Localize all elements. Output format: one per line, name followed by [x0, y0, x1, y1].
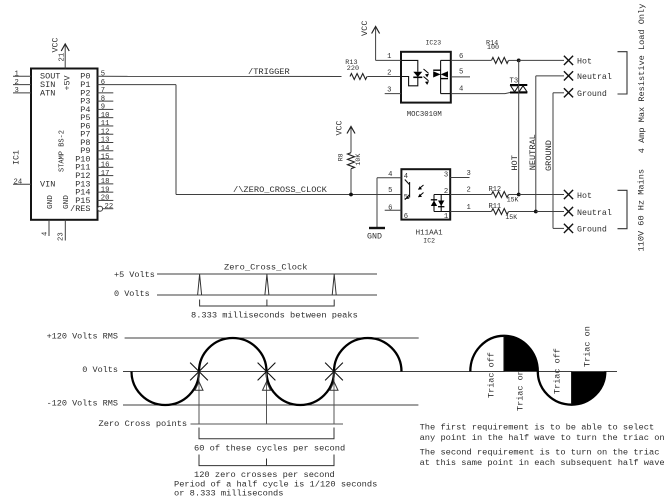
svg-text:23: 23 [58, 232, 66, 241]
svg-text:6: 6 [404, 213, 408, 221]
svg-text:3: 3 [15, 87, 19, 95]
svg-text:24: 24 [14, 179, 23, 187]
svg-text:5: 5 [101, 71, 105, 79]
svg-text:4: 4 [388, 171, 392, 179]
svg-text:Triac off: Triac off [553, 348, 563, 394]
svg-text:/\ZERO_CROSS_CLOCK: /\ZERO_CROSS_CLOCK [233, 185, 328, 195]
svg-text:T3: T3 [510, 77, 519, 85]
svg-text:HOT: HOT [510, 155, 520, 170]
svg-text:/RES: /RES [70, 204, 90, 214]
svg-text:14: 14 [101, 145, 110, 153]
svg-text:GND: GND [63, 195, 71, 209]
svg-text:1: 1 [15, 71, 19, 79]
svg-text:8: 8 [101, 95, 105, 103]
svg-text:The first requirement is to be: The first requirement is to be able to s… [420, 423, 655, 433]
svg-text:R11: R11 [489, 203, 502, 211]
svg-text:19: 19 [101, 186, 110, 194]
svg-text:5: 5 [459, 69, 463, 77]
svg-text:10K: 10K [355, 154, 362, 166]
svg-text:16: 16 [101, 162, 110, 170]
svg-text:22: 22 [105, 203, 114, 211]
svg-text:VCC: VCC [50, 37, 60, 52]
svg-text:+120 Volts RMS: +120 Volts RMS [47, 332, 118, 342]
svg-text:6: 6 [101, 79, 105, 87]
svg-text:NEUTRAL: NEUTRAL [528, 134, 538, 170]
svg-text:VCC: VCC [335, 120, 345, 135]
svg-text:Hot: Hot [577, 58, 592, 67]
svg-text:GND: GND [367, 233, 382, 242]
svg-text:Neutral: Neutral [577, 208, 612, 218]
svg-text:-120 Volts RMS: -120 Volts RMS [47, 399, 118, 409]
svg-text:Zero Cross points: Zero Cross points [99, 419, 188, 429]
svg-text:4: 4 [42, 232, 50, 236]
svg-text:Triac on: Triac on [515, 370, 525, 411]
svg-text:Ground: Ground [577, 225, 607, 235]
svg-text:18: 18 [101, 178, 110, 186]
svg-text:H11AA1: H11AA1 [416, 230, 444, 238]
svg-text:any point in the half wave to: any point in the half wave to turn the t… [420, 433, 664, 443]
svg-text:Neutral: Neutral [577, 72, 612, 82]
svg-text:9: 9 [101, 104, 105, 112]
svg-text:5: 5 [388, 187, 392, 195]
svg-text:STAMP BS-2: STAMP BS-2 [58, 130, 66, 172]
svg-text:21: 21 [58, 53, 66, 62]
svg-text:The second requirement is to t: The second requirement is to turn on the… [420, 448, 660, 458]
svg-text:4 Amp Max Resistive Load Only: 4 Amp Max Resistive Load Only [637, 4, 647, 154]
svg-text:12: 12 [101, 128, 110, 136]
svg-text:GND: GND [47, 195, 55, 209]
svg-text:120 zero crosses per second: 120 zero crosses per second [194, 470, 335, 480]
svg-text:at this same point in each sub: at this same point in each subsequent ha… [420, 458, 664, 468]
svg-text:100: 100 [487, 44, 499, 52]
svg-text:0 Volts: 0 Volts [114, 289, 150, 299]
svg-text:1: 1 [387, 53, 391, 61]
svg-text:Triac on: Triac on [583, 326, 593, 367]
svg-text:ATN: ATN [40, 88, 55, 98]
svg-text:6: 6 [388, 205, 392, 213]
svg-text:VCC: VCC [360, 21, 370, 36]
svg-text:15K: 15K [505, 214, 517, 221]
svg-text:VIN: VIN [40, 180, 55, 190]
svg-text:20: 20 [101, 195, 110, 203]
svg-text:60 of these cycles per second: 60 of these cycles per second [194, 443, 345, 453]
svg-text:IC23: IC23 [426, 40, 442, 47]
svg-text:R8: R8 [337, 153, 344, 161]
svg-text:R12: R12 [489, 186, 502, 194]
svg-text:Ground: Ground [577, 89, 607, 99]
svg-text:10: 10 [101, 112, 110, 120]
svg-text:2: 2 [467, 187, 471, 195]
svg-text:/TRIGGER: /TRIGGER [248, 67, 290, 77]
svg-text:Hot: Hot [577, 192, 592, 201]
svg-text:IC1: IC1 [12, 150, 21, 165]
svg-text:1: 1 [467, 204, 471, 212]
svg-text:4: 4 [459, 85, 463, 93]
svg-text:1: 1 [444, 213, 448, 221]
svg-text:220: 220 [347, 65, 359, 73]
svg-text:3: 3 [444, 172, 448, 180]
svg-text:2: 2 [15, 79, 19, 87]
svg-text:8.333 milliseconds between pea: 8.333 milliseconds between peaks [191, 311, 358, 321]
svg-text:0 Volts: 0 Volts [82, 365, 118, 375]
svg-text:+5V: +5V [62, 75, 72, 90]
svg-text:110V 60 Hz Mains: 110V 60 Hz Mains [637, 169, 647, 252]
svg-text:6: 6 [459, 53, 463, 61]
svg-text:11: 11 [101, 120, 110, 128]
svg-text:13: 13 [101, 137, 110, 145]
svg-text:+5 Volts: +5 Volts [114, 270, 155, 280]
svg-text:7: 7 [101, 87, 105, 95]
svg-text:Triac off: Triac off [487, 352, 497, 398]
svg-text:Zero_Cross_Clock: Zero_Cross_Clock [224, 262, 307, 272]
svg-text:15: 15 [101, 153, 110, 161]
svg-text:IC2: IC2 [423, 237, 435, 244]
svg-text:15K: 15K [507, 196, 519, 203]
svg-text:or 8.333 milliseconds: or 8.333 milliseconds [174, 489, 283, 499]
svg-text:GROUND: GROUND [544, 140, 554, 171]
svg-text:17: 17 [101, 170, 110, 178]
svg-text:3: 3 [387, 86, 391, 94]
svg-text:MOC3010M: MOC3010M [407, 111, 442, 119]
svg-text:2: 2 [387, 69, 391, 77]
